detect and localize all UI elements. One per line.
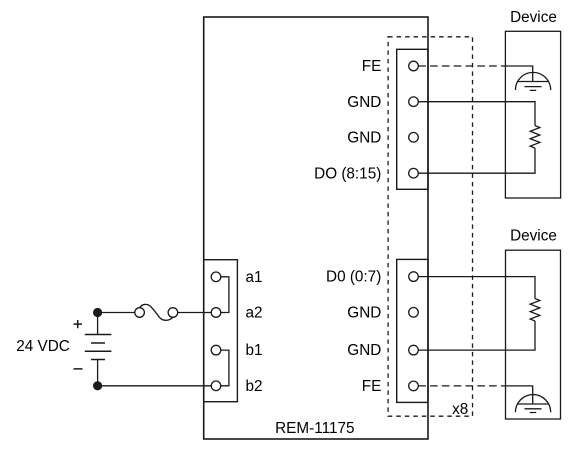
svg-text:a2: a2 bbox=[246, 305, 263, 322]
svg-text:GND: GND bbox=[347, 304, 381, 321]
svg-text:FE: FE bbox=[362, 58, 382, 75]
svg-text:GND: GND bbox=[347, 342, 381, 359]
svg-text:REM-11175: REM-11175 bbox=[275, 420, 354, 437]
svg-text:GND: GND bbox=[347, 94, 381, 111]
svg-text:D0 (0:7): D0 (0:7) bbox=[326, 269, 381, 286]
svg-text:FE: FE bbox=[362, 378, 382, 395]
svg-text:DO (8:15): DO (8:15) bbox=[314, 165, 381, 182]
svg-text:24 VDC: 24 VDC bbox=[16, 338, 70, 355]
svg-text:GND: GND bbox=[347, 129, 381, 146]
svg-text:a1: a1 bbox=[246, 269, 263, 286]
svg-text:x8: x8 bbox=[452, 401, 468, 418]
svg-text:b2: b2 bbox=[246, 378, 263, 395]
svg-text:Device: Device bbox=[510, 9, 557, 26]
svg-text:Device: Device bbox=[510, 227, 557, 244]
svg-text:b1: b1 bbox=[246, 342, 263, 359]
